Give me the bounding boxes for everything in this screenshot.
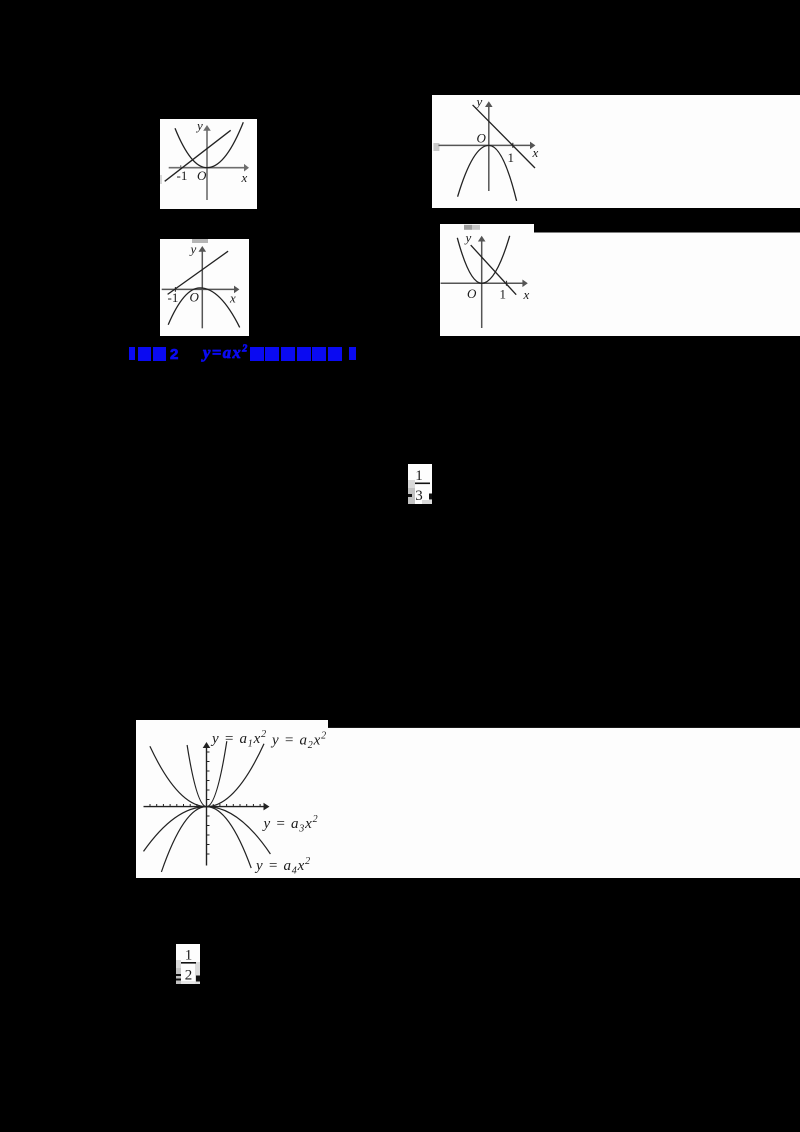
inline formula 1/2 white box xyxy=(176,944,200,984)
parabola a2 (wide, up) xyxy=(150,744,264,807)
tick 1 xyxy=(506,281,508,286)
graph image B band: downward parabola with falling line, labels O, 1, x, y xyxy=(432,95,800,208)
tick -1 xyxy=(180,165,182,167)
x ticks xyxy=(150,804,260,807)
svg-text:-1: -1 xyxy=(177,168,188,183)
char 图 xyxy=(265,347,279,361)
big graph image E: four parabolas y=a1x^2..y=a4x^2 xyxy=(136,720,800,878)
x-axis xyxy=(441,282,524,284)
svg-text:y: y xyxy=(195,119,203,133)
svg-text:y = a1x2: y = a1x2 xyxy=(210,729,267,750)
fraction bar xyxy=(415,483,430,485)
graph image A: upward parabola with line, labels -1, O, x, y xyxy=(160,119,257,209)
parabola a1 (steep, up) xyxy=(187,741,227,806)
left-edge gray sliver xyxy=(160,175,162,184)
partial glyph left xyxy=(408,494,412,497)
char 质 xyxy=(328,347,342,361)
y-axis xyxy=(206,129,208,200)
y-axis xyxy=(206,746,208,866)
graph image C: rising line with downward parabola, labels -1, O, x, y xyxy=(160,239,249,336)
y-axis xyxy=(481,240,483,328)
graph image D band: upward parabola with falling line, labels O, 1, x, y xyxy=(440,224,800,336)
char 考 xyxy=(138,347,151,361)
svg-text:x: x xyxy=(241,170,248,185)
inline formula 1/3 white box xyxy=(408,464,432,504)
rising line through (-1,0) xyxy=(168,251,229,294)
svg-text:1: 1 xyxy=(500,287,507,302)
x-axis xyxy=(169,167,246,169)
fraction bar xyxy=(181,962,196,964)
svg-text:y = a2x2: y = a2x2 xyxy=(270,731,327,752)
partial glyph right xyxy=(429,494,432,500)
svg-text:x: x xyxy=(523,287,530,302)
gray notch top xyxy=(192,239,208,243)
svg-text:O: O xyxy=(197,168,207,183)
svg-text:O: O xyxy=(477,131,487,146)
black notch at top right of D xyxy=(534,224,800,233)
y-axis xyxy=(488,106,490,192)
char 点 xyxy=(153,347,166,361)
partial '=' glyph left xyxy=(176,974,181,976)
svg-text:3: 3 xyxy=(415,488,423,504)
tick -1 xyxy=(174,287,176,292)
char 象 xyxy=(281,347,295,361)
line through (-1,0) rising right xyxy=(165,130,231,181)
svg-text:y = a3x2: y = a3x2 xyxy=(262,814,319,835)
svg-text:1: 1 xyxy=(508,150,515,165)
digit 2 xyxy=(170,346,182,360)
svg-text:-1: -1 xyxy=(168,290,179,305)
svg-text:O: O xyxy=(190,290,200,305)
falling line xyxy=(473,105,535,168)
tick 1 xyxy=(512,143,514,148)
x-axis xyxy=(162,288,236,290)
falling line xyxy=(471,245,517,295)
svg-text:y: y xyxy=(189,242,197,257)
svg-text:O: O xyxy=(467,286,477,301)
bracket 】 xyxy=(349,347,356,360)
black notch top right (covers label overflow) xyxy=(328,720,800,728)
bracket 【 xyxy=(129,347,135,360)
svg-text:y: y xyxy=(475,95,483,109)
downward parabola tangent at O xyxy=(168,288,240,328)
svg-text:2: 2 xyxy=(185,968,193,984)
char 性 xyxy=(312,347,326,361)
y=ax xyxy=(203,343,257,361)
gray handle near y label xyxy=(464,225,472,230)
svg-text:1: 1 xyxy=(185,948,193,964)
partial glyph right xyxy=(196,976,200,982)
parabola (opens up, vertex at O) xyxy=(175,122,243,168)
svg-text:y = a4x2: y = a4x2 xyxy=(254,856,311,877)
parabola a4 (steep, down) xyxy=(161,807,251,872)
upward parabola vertex at O xyxy=(457,236,509,283)
y-axis xyxy=(201,250,203,328)
parabola a3 (wide, down) xyxy=(144,807,271,854)
blue heading 【考点 2 y=ax^2 的图象与性质】 (CJK as blobs) xyxy=(0,0,1,1)
svg-text:1: 1 xyxy=(415,468,423,484)
y ticks xyxy=(207,752,210,854)
downward parabola vertex at O xyxy=(458,145,517,201)
char 与 xyxy=(297,347,311,361)
char 的 xyxy=(250,347,264,361)
x-axis xyxy=(144,806,266,808)
x-axis xyxy=(439,144,532,146)
svg-text:x: x xyxy=(229,291,236,306)
svg-text:y: y xyxy=(464,230,472,245)
svg-text:x: x xyxy=(532,145,539,160)
gray handle square on left edge xyxy=(433,143,439,151)
